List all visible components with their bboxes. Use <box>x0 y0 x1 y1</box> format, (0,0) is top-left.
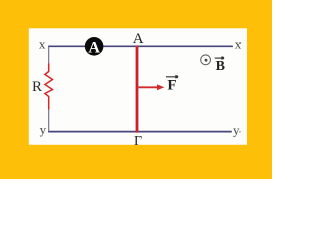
node label x prime tick <box>239 42 242 44</box>
force vector F arrow <box>139 84 165 90</box>
label B with vector arrow <box>215 56 225 74</box>
resistor R <box>45 63 53 109</box>
svg-text:A: A <box>88 39 100 56</box>
wire top rail x-x' <box>48 45 233 47</box>
ammeter A <box>85 37 104 56</box>
svg-text:R: R <box>32 79 42 95</box>
wire left branch lower segment <box>48 109 50 132</box>
label F with vector arrow <box>166 75 179 94</box>
svg-text:x: x <box>39 36 46 51</box>
svg-text:y: y <box>233 123 240 138</box>
node label y prime tick <box>239 131 242 133</box>
svg-text:y: y <box>40 122 47 137</box>
svg-text:B: B <box>216 59 225 74</box>
svg-text:A: A <box>133 31 144 47</box>
node label Γ prime tick <box>139 136 140 137</box>
svg-text:F: F <box>167 77 176 93</box>
wire left branch upper segment <box>48 46 50 64</box>
sliding rod A-Γ (red bar) <box>136 46 139 133</box>
white panel <box>29 28 247 145</box>
magnetic field symbol B out of page <box>201 55 211 65</box>
wire bottom rail y-y' <box>48 131 232 133</box>
svg-text:Γ: Γ <box>134 134 142 149</box>
